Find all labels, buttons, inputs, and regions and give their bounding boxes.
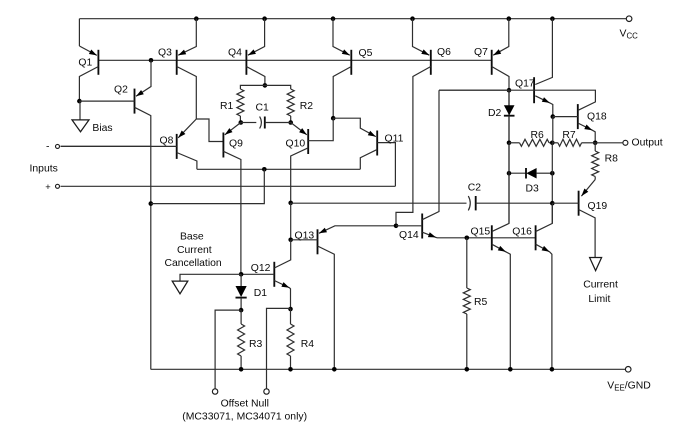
node: top rail junction above Q3 [194, 16, 199, 21]
diode D3 [509, 168, 552, 194]
wire: Q12 base to cancellation arrow [180, 274, 241, 281]
svg-text:VEE/GND: VEE/GND [607, 381, 650, 393]
svg-text:D2: D2 [488, 108, 502, 119]
svg-text:Q4: Q4 [228, 48, 242, 59]
node: Q10 collector / C2 tap [288, 201, 293, 206]
transistor Q2 [79, 60, 151, 369]
wire: D3 to Q19 base node [551, 173, 553, 203]
svg-text:Q1: Q1 [78, 58, 92, 69]
svg-text:Q5: Q5 [359, 48, 373, 59]
svg-text:-: - [46, 141, 49, 152]
svg-text:Q18: Q18 [587, 112, 607, 123]
svg-text:Q12: Q12 [251, 263, 271, 274]
transistor Q9 [223, 123, 243, 275]
transistor Q1 [78, 19, 98, 101]
svg-text:R2: R2 [300, 101, 314, 112]
node: Q2 collector link junction [149, 201, 154, 206]
svg-text:Current: Current [177, 245, 212, 256]
resistor R2 [265, 85, 313, 122]
wire: Q19 base node to Q16 collector [551, 203, 553, 223]
resistor R4 [287, 309, 314, 369]
svg-text:VCC: VCC [620, 29, 639, 41]
node: R5 top junction [465, 236, 470, 241]
svg-text:Cancellation: Cancellation [165, 258, 222, 269]
node: Q7 collector / D2 / Q17 base junction [507, 88, 512, 93]
node: Q16 emitter / rail junction [550, 367, 555, 372]
terminal non-inverting input [45, 182, 59, 192]
terminal offset null 2 [264, 389, 269, 394]
wire: Q3 collector jog to Q9 base [196, 119, 223, 142]
wire: bus link down to Q2 collector [151, 169, 264, 203]
node: Q19 base junction [550, 201, 555, 206]
node: top rail junction above Q17 [550, 16, 555, 21]
node: R3 bottom junction [239, 367, 244, 372]
node: D3 left junction [507, 171, 512, 176]
resistor R8 [592, 143, 618, 180]
transistor Q17 [439, 19, 553, 117]
transistor Q12 [241, 240, 291, 309]
node: top rail junction above Q7 [507, 16, 512, 21]
transistor Q8 [61, 119, 197, 169]
svg-text:R5: R5 [474, 297, 488, 308]
svg-text:Q6: Q6 [437, 47, 451, 58]
terminal Output [623, 138, 663, 149]
svg-text:Q17: Q17 [515, 79, 535, 90]
transistor Q10 [286, 118, 334, 203]
node: top rail junction above Q4 [262, 16, 267, 21]
node: Q15 emitter / rail junction [508, 367, 513, 372]
capacitor C1 [241, 103, 291, 129]
resistor R5 [463, 238, 487, 369]
svg-text:D1: D1 [254, 288, 268, 299]
wire: Q10 collector to Q13 base node [290, 203, 292, 240]
label Current Limit [583, 280, 618, 305]
svg-text:Output: Output [632, 138, 663, 149]
svg-text:Q10: Q10 [286, 139, 306, 150]
svg-text:Q16: Q16 [512, 226, 532, 237]
transistor Q4 [228, 19, 265, 86]
base current cancellation arrow [172, 281, 188, 294]
svg-text:(MC33071, MC34071 only): (MC33071, MC34071 only) [182, 412, 307, 423]
svg-text:Q8: Q8 [160, 135, 174, 146]
wire: R6/R7 node to D3 [551, 143, 553, 173]
node: Q1 collector / Q2 base junction [77, 99, 82, 104]
node: top rail junction above Q6 [410, 16, 415, 21]
wire: offset null 1 [215, 310, 241, 388]
wire: R6 left node to D3 left [508, 143, 510, 173]
node: Q12 emitter / R4 top junction [288, 307, 293, 312]
node: Q18 emitter / output junction [593, 141, 598, 146]
node: R1 bottom / Q9 emitter [239, 120, 244, 125]
terminal offset null 1 [212, 389, 217, 394]
transistor Q19 [552, 180, 607, 258]
node: top rail junction above Q5 [331, 16, 336, 21]
node: D2 cathode / R6 left junction [507, 141, 512, 146]
node: collector bus junction [262, 167, 267, 172]
svg-text:R4: R4 [301, 339, 315, 350]
node: D3 right junction [550, 171, 555, 176]
capacitor C2 [468, 183, 553, 211]
wire: Q14 emitter to Q15/Q16 bases [437, 237, 536, 239]
diode D1 [236, 274, 268, 310]
node: Q14 base junction [394, 224, 399, 229]
resistor R3 [238, 310, 263, 369]
transistor Q16 [512, 203, 552, 369]
node: R4 bottom junction [288, 367, 293, 372]
node: D1 cathode / R3 top junction [239, 308, 244, 313]
svg-text:R8: R8 [605, 153, 619, 164]
svg-text:+: + [45, 182, 50, 192]
node: R2 bottom / Q10 emitter [288, 120, 293, 125]
wire: Q8/Q11 collector bus [197, 168, 360, 170]
svg-text:Base: Base [180, 231, 204, 242]
node: Q5 collector junction [331, 116, 336, 121]
terminal VCC [620, 16, 639, 41]
node: R5 bottom junction [465, 367, 470, 372]
node: Q12 base junction [239, 272, 244, 277]
svg-text:Current: Current [583, 280, 618, 291]
resistor R6 [509, 130, 552, 146]
wire: output wire [595, 142, 623, 144]
bias arrow symbol [72, 101, 89, 132]
transistor Q6 [396, 19, 451, 226]
svg-text:Bias: Bias [92, 123, 112, 134]
wire: Q14 collector to Q17 base line [439, 89, 509, 91]
svg-text:C2: C2 [468, 183, 482, 194]
node: Q13 collector / rail junction [332, 367, 337, 372]
svg-text:Q7: Q7 [474, 47, 488, 58]
svg-text:Q3: Q3 [158, 48, 172, 59]
svg-text:C1: C1 [256, 103, 270, 114]
svg-text:Q19: Q19 [588, 201, 608, 212]
transistor Q11 [333, 118, 403, 186]
transistor Q13 [291, 226, 396, 369]
resistor R1 [220, 85, 265, 122]
transistor Q15 [471, 90, 511, 369]
terminal inverting input [46, 141, 60, 152]
terminal VEE/GND [607, 367, 650, 393]
svg-text:Q9: Q9 [229, 139, 243, 150]
node: Q17 emitter / Q18 base junction [551, 114, 556, 119]
node: Q13 base junction [288, 238, 293, 243]
current limit arrow [590, 258, 602, 271]
diode D2 [488, 90, 515, 143]
svg-text:Offset Null: Offset Null [221, 399, 269, 410]
wire: inverting input to Q8 base [61, 145, 151, 147]
svg-text:R7: R7 [562, 130, 576, 141]
wire: common base rail Q1-Q7 [98, 59, 491, 61]
wire: VEE/GND bottom rail [151, 368, 626, 370]
wire: C2 line from Q10 collector [291, 202, 467, 204]
svg-text:Q15: Q15 [471, 226, 491, 237]
wire: VCC top rail [79, 18, 626, 20]
svg-text:Inputs: Inputs [30, 163, 58, 174]
label Base Current Cancellation [165, 231, 222, 269]
svg-text:Limit: Limit [588, 294, 610, 305]
svg-text:R3: R3 [249, 339, 263, 350]
node: Q1 base junction [149, 58, 154, 63]
transistor Q5 [333, 19, 373, 119]
wire: non-inverting input to Q11 base [61, 185, 396, 187]
svg-text:Q2: Q2 [114, 84, 128, 95]
transistor Q18 [534, 90, 607, 143]
svg-text:Q14: Q14 [399, 230, 419, 241]
svg-text:R6: R6 [531, 130, 545, 141]
resistor R7 [552, 130, 595, 146]
wire: offset null 2 [267, 308, 291, 388]
svg-text:Q11: Q11 [385, 134, 404, 145]
transistor Q7 [474, 19, 509, 91]
node: Q4 collector / R1 R2 junction [263, 83, 268, 88]
svg-text:Q13: Q13 [295, 230, 315, 241]
svg-text:D3: D3 [526, 183, 540, 194]
wire: Q17 emitter to R6/R7 node [552, 117, 554, 143]
node: R6/R7 junction [550, 141, 555, 146]
wire: D3 left to Q15 collector [508, 173, 510, 223]
transistor Q14 [396, 90, 439, 241]
svg-text:R1: R1 [220, 101, 234, 112]
transistor Q3 [158, 19, 196, 119]
